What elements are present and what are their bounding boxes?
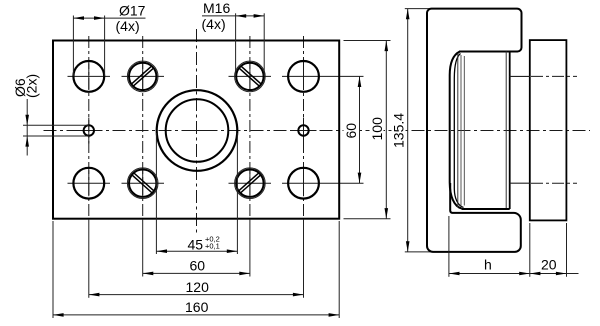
- dim d17 line: [73, 17, 145, 19]
- body outline: [427, 9, 522, 252]
- dim d6 arrows: [25, 115, 29, 126]
- dim d17 extension lines: [72, 16, 74, 77]
- hole M16 top-right: [235, 61, 266, 92]
- dim h extension line: [448, 216, 450, 277]
- hole d17 top-right: [288, 61, 319, 92]
- dim 160 line: [53, 314, 339, 316]
- hole M16 bottom-left: [127, 168, 158, 199]
- dim 160 extension lines: [52, 221, 54, 318]
- dim 20 extension lines: [529, 223, 531, 277]
- dim M16 arrows: [236, 14, 247, 18]
- dim 100 line: [385, 41, 387, 219]
- dim 135.4 arrows: [406, 9, 410, 20]
- plate edge-on right face thin line: [505, 52, 507, 210]
- centerline horizontal main (y=130.5): [44, 130, 591, 132]
- centerline block top row: [531, 75, 577, 77]
- hole d6 left: [84, 125, 94, 135]
- arm bottom edge: [462, 208, 510, 210]
- dim d6 line: [26, 99, 28, 156]
- svg-text:Ø17: Ø17: [119, 2, 146, 18]
- clamp arm inner profile: [454, 54, 463, 208]
- dim d6 tangent extension bottom: [23, 135, 89, 137]
- central bore outer circle (d45): [157, 90, 238, 171]
- dim 100 label: [370, 116, 384, 143]
- arm face line 2: [460, 55, 462, 207]
- mounting block right: [530, 40, 567, 220]
- dim 60 extension lines: [142, 219, 144, 277]
- plate outline: [53, 41, 339, 219]
- centerline solid crossing left d6 hole: [76, 118, 102, 144]
- centerline row y=76.4 segments: [68, 75, 364, 77]
- centerline solid crossing bore center: [184, 130, 210, 132]
- centerline solid crossing right d6 hole: [291, 118, 317, 144]
- centerline column x=142.7: [142, 36, 144, 219]
- dim d6 tangent extension top: [23, 124, 89, 126]
- svg-text:h: h: [484, 257, 492, 273]
- dim 60 vertical label: [344, 121, 358, 141]
- connector line top row: [510, 75, 530, 77]
- dim 45 extension lines: [155, 133, 157, 254]
- dim 120 line: [89, 294, 304, 296]
- hole M16 top-left: [127, 61, 158, 92]
- dim 100 extension lines: [344, 40, 391, 42]
- svg-text:60: 60: [190, 258, 206, 274]
- dim 100 arrows: [385, 41, 389, 52]
- centerline solid crossings at hole centers: [89, 63, 304, 196]
- svg-text:160: 160: [185, 299, 209, 315]
- dim 60 line: [143, 272, 250, 274]
- dim 60 arrows: [143, 272, 154, 276]
- dim M16 extension lines: [235, 13, 237, 76]
- dim 60 vertical arrows: [358, 76, 362, 87]
- centerline column x=88.8: [88, 36, 90, 219]
- hole d6 right: [298, 125, 308, 135]
- central bore inner circle: [166, 99, 229, 162]
- svg-text:M16: M16: [203, 0, 230, 16]
- dim d17 arrows: [73, 16, 84, 20]
- svg-text:120: 120: [186, 279, 210, 295]
- hole M16 bottom-right: [235, 168, 266, 199]
- centerline column x=249.9: [249, 36, 251, 219]
- dim 135.4 line: [407, 9, 409, 252]
- dim 20 arrows: [530, 272, 541, 276]
- centerline column x=303.5: [303, 36, 305, 219]
- connector line bottom row: [510, 182, 530, 184]
- svg-text:100: 100: [369, 117, 385, 141]
- centerline vertical plate center: [196, 29, 198, 234]
- dim 120 arrows: [89, 293, 100, 297]
- centerline row y=183.2 segments: [68, 182, 364, 184]
- centerline block bottom row: [531, 182, 577, 184]
- svg-text:+0,1: +0,1: [205, 242, 220, 251]
- svg-text:(2x): (2x): [23, 74, 39, 98]
- svg-text:20: 20: [541, 256, 557, 272]
- hole d17 bottom-left: [73, 168, 104, 199]
- dim h arrows: [449, 272, 460, 276]
- dim M16 line: [202, 15, 264, 17]
- dim 120 extension lines: [88, 219, 90, 298]
- svg-text:135.4: 135.4: [391, 113, 407, 148]
- dim 160 arrows: [53, 313, 64, 317]
- dim 60 vertical line: [359, 76, 361, 183]
- svg-text:(4x): (4x): [202, 16, 226, 32]
- svg-text:60: 60: [343, 123, 359, 139]
- arm face line 1: [457, 54, 459, 208]
- dim 135.4 label: [392, 113, 406, 150]
- hole d17 bottom-right: [288, 168, 319, 199]
- dim 135.4 extension lines: [405, 8, 430, 10]
- dim 45 line: [156, 250, 237, 252]
- hole d17 top-left: [73, 61, 104, 92]
- dim 45 arrows: [156, 249, 167, 253]
- plate edge-on right face bold line: [509, 52, 511, 210]
- clamp arm outer profile: [450, 52, 462, 209]
- dim h and 20 line: [449, 273, 579, 275]
- arm face line 3: [463, 56, 465, 206]
- svg-text:(4x): (4x): [116, 18, 140, 34]
- svg-text:45: 45: [188, 236, 204, 252]
